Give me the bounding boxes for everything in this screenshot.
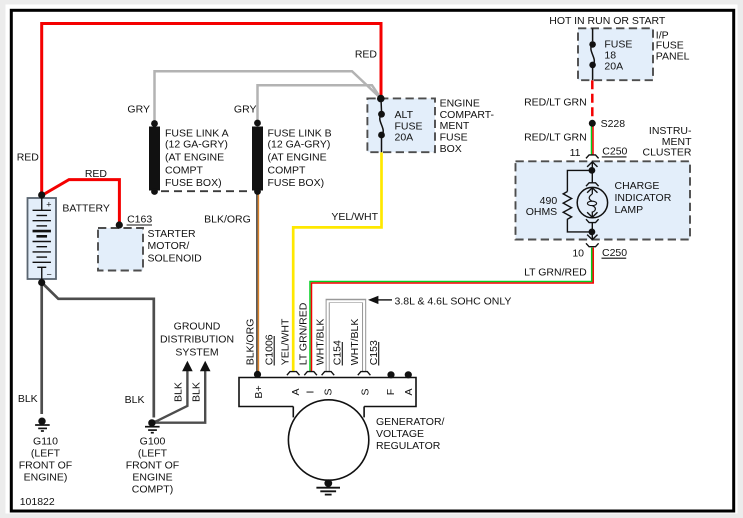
connector C163 xyxy=(116,221,123,228)
svg-text:GRY: GRY xyxy=(234,104,257,116)
svg-text:HOT IN RUN OR START: HOT IN RUN OR START xyxy=(549,15,666,27)
svg-text:COMPT: COMPT xyxy=(268,164,307,176)
pin hat I xyxy=(304,372,317,376)
svg-text:BLK: BLK xyxy=(191,382,203,402)
instrument cluster box xyxy=(516,161,691,239)
wire WHT/BLK S-S loop (3.8L/4.6L) xyxy=(328,301,364,372)
svg-text:SYSTEM: SYSTEM xyxy=(175,346,218,358)
wire BLK G100 to ground distribution arrow 1 xyxy=(153,371,188,423)
svg-text:C1006: C1006 xyxy=(263,334,275,365)
svg-text:10: 10 xyxy=(572,248,584,260)
charge indicator lamp xyxy=(586,183,599,186)
svg-text:11: 11 xyxy=(570,147,581,159)
junction node red/grey xyxy=(377,95,385,103)
svg-text:BLK: BLK xyxy=(125,394,145,406)
svg-text:C154: C154 xyxy=(331,340,343,365)
svg-text:ENGINE: ENGINE xyxy=(132,472,172,484)
svg-text:BLK: BLK xyxy=(18,393,38,405)
svg-text:GRY: GRY xyxy=(127,104,150,116)
svg-text:G110: G110 xyxy=(33,435,58,447)
resistor branch wire xyxy=(567,170,592,191)
svg-text:−: − xyxy=(47,270,52,280)
svg-text:3.8L & 4.6L SOHC ONLY: 3.8L & 4.6L SOHC ONLY xyxy=(395,295,512,307)
arrow 3.8L & 4.6L SOHC ONLY xyxy=(377,299,392,301)
wire GRY fuse link B to junction xyxy=(258,85,382,123)
pin A node xyxy=(405,371,412,378)
svg-text:G100: G100 xyxy=(140,435,166,447)
svg-text:LT GRN/RED: LT GRN/RED xyxy=(524,267,587,279)
I/P fuse panel box xyxy=(578,28,653,80)
svg-text:C250: C250 xyxy=(602,146,627,158)
svg-text:INDICATOR: INDICATOR xyxy=(615,192,672,204)
generator ground xyxy=(327,480,329,483)
connector C250 bottom xyxy=(586,243,599,246)
svg-text:MOTOR/: MOTOR/ xyxy=(148,240,190,252)
svg-text:SOLENOID: SOLENOID xyxy=(148,252,203,264)
svg-text:MENT: MENT xyxy=(440,120,470,132)
svg-text:A: A xyxy=(403,388,415,395)
wire BLK battery to G110 xyxy=(40,283,43,415)
svg-text:RED/LT GRN: RED/LT GRN xyxy=(524,131,587,143)
svg-text:B+: B+ xyxy=(253,385,265,398)
svg-text:STARTER: STARTER xyxy=(148,228,196,240)
generator/voltage regulator circle xyxy=(288,400,368,480)
svg-text:REGULATOR: REGULATOR xyxy=(376,440,441,452)
wire RED battery to starter motor C163 xyxy=(42,180,120,222)
svg-text:F: F xyxy=(385,389,397,395)
wire RED/LT GRN dashed fuse18 to S228 xyxy=(591,80,594,122)
fuse ALT FUSE 20A xyxy=(380,99,383,111)
svg-text:ALT: ALT xyxy=(395,109,414,121)
generator connector box fill xyxy=(239,378,416,407)
wire LT GRN/RED cluster to I pin xyxy=(310,248,592,372)
battery positive node xyxy=(38,191,45,198)
svg-text:OHMS: OHMS xyxy=(526,206,558,218)
svg-text:20A: 20A xyxy=(604,60,623,72)
svg-text:FUSE BOX): FUSE BOX) xyxy=(268,177,325,189)
fuse 18 20A xyxy=(592,28,594,41)
svg-text:DISTRIBUTION: DISTRIBUTION xyxy=(160,334,234,346)
svg-text:C250: C250 xyxy=(602,247,627,259)
generator connector box outline xyxy=(239,378,416,407)
wire BLK/ORG fuse link B to B+ pin xyxy=(256,192,258,375)
engine compartment fuse box xyxy=(367,98,435,152)
junction node lamp top xyxy=(589,167,596,174)
svg-text:LAMP: LAMP xyxy=(615,204,644,216)
svg-text:GROUND: GROUND xyxy=(174,321,221,333)
svg-text:COMPT): COMPT) xyxy=(132,484,173,496)
svg-text:BLK/ORG: BLK/ORG xyxy=(244,319,256,366)
pin hat S1 xyxy=(322,372,335,376)
wire GRY fuse link A to junction xyxy=(155,71,381,123)
svg-text:(12 GA-GRY): (12 GA-GRY) xyxy=(268,139,331,151)
svg-text:S228: S228 xyxy=(601,118,626,130)
svg-text:COMPT: COMPT xyxy=(165,164,204,176)
svg-text:101822: 101822 xyxy=(20,496,55,508)
C250 pin 11 arrow xyxy=(591,162,593,167)
svg-text:RED/LT GRN: RED/LT GRN xyxy=(524,96,587,108)
wire RED/LT GRN S228 to C250 xyxy=(591,126,593,155)
svg-text:RED: RED xyxy=(355,48,378,60)
pin F node xyxy=(387,371,394,378)
fuse link B xyxy=(252,127,263,191)
wire RED battery to engine compartment fuse box xyxy=(42,24,381,196)
battery negative node xyxy=(38,279,45,286)
svg-text:I: I xyxy=(305,391,317,394)
pin hat A xyxy=(287,372,300,376)
svg-text:S: S xyxy=(360,388,372,395)
svg-text:COMPART-: COMPART- xyxy=(440,109,495,121)
svg-text:WHT/BLK: WHT/BLK xyxy=(349,319,361,366)
svg-text:(LEFT: (LEFT xyxy=(138,447,168,459)
svg-text:LT GRN/RED: LT GRN/RED xyxy=(297,302,309,365)
svg-text:FUSE: FUSE xyxy=(440,132,468,144)
connector C1006 node B+ xyxy=(254,371,261,378)
svg-text:(LEFT: (LEFT xyxy=(31,447,61,459)
svg-text:C153: C153 xyxy=(368,340,380,365)
wire BLK G100 to ground distribution arrow 2 xyxy=(153,371,205,423)
svg-text:(12 GA-GRY): (12 GA-GRY) xyxy=(165,139,228,151)
C250 pin 10 arrow xyxy=(591,232,593,240)
svg-text:CLUSTER: CLUSTER xyxy=(642,147,691,159)
svg-text:FRONT OF: FRONT OF xyxy=(126,460,179,472)
svg-text:CHARGE: CHARGE xyxy=(615,180,660,192)
svg-text:ENGINE: ENGINE xyxy=(440,97,480,109)
wire BLK battery to G100 xyxy=(42,283,154,418)
svg-text:A: A xyxy=(290,388,302,395)
svg-text:(AT ENGINE: (AT ENGINE xyxy=(165,151,224,163)
starter motor/solenoid box xyxy=(98,228,143,271)
svg-text:BLK: BLK xyxy=(173,382,185,402)
svg-text:PANEL: PANEL xyxy=(656,50,690,62)
splice S228 xyxy=(589,120,596,127)
fuse link A xyxy=(149,127,160,191)
wire lamp top xyxy=(591,167,593,183)
dashed fuse box line xyxy=(161,190,251,192)
svg-text:FUSE: FUSE xyxy=(395,120,423,132)
svg-text:FUSE BOX): FUSE BOX) xyxy=(165,177,222,189)
svg-text:+: + xyxy=(46,200,51,210)
svg-text:WHT/BLK: WHT/BLK xyxy=(315,319,327,366)
battery xyxy=(28,198,57,279)
svg-text:FRONT OF: FRONT OF xyxy=(19,460,72,472)
svg-text:YEL/WHT: YEL/WHT xyxy=(331,211,378,223)
wire YEL/WHT alt fuse to A pin xyxy=(293,152,381,371)
svg-text:GENERATOR/: GENERATOR/ xyxy=(376,416,445,428)
resistor 490 OHMS xyxy=(563,192,571,222)
svg-text:20A: 20A xyxy=(395,132,414,144)
svg-text:C163: C163 xyxy=(127,214,152,226)
svg-text:VOLTAGE: VOLTAGE xyxy=(376,428,424,440)
svg-text:RED: RED xyxy=(85,168,108,180)
svg-text:BOX: BOX xyxy=(440,143,462,155)
svg-text:(AT ENGINE: (AT ENGINE xyxy=(268,151,327,163)
svg-text:ENGINE): ENGINE) xyxy=(24,472,68,484)
svg-text:RED: RED xyxy=(17,151,40,163)
ground G110 xyxy=(38,418,45,425)
svg-text:YEL/WHT: YEL/WHT xyxy=(280,318,292,365)
pin hat S2 xyxy=(358,372,371,376)
junction node lamp bottom xyxy=(589,229,596,236)
svg-text:BATTERY: BATTERY xyxy=(62,202,109,214)
svg-text:BLK/ORG: BLK/ORG xyxy=(204,213,251,225)
ground G100 xyxy=(148,419,155,426)
svg-text:S: S xyxy=(322,388,334,395)
